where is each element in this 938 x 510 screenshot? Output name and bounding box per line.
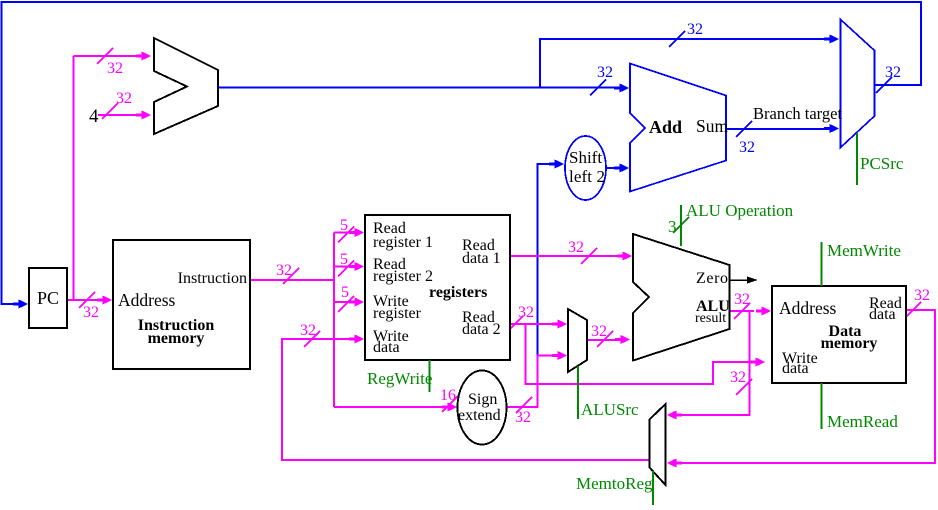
svg-text:ALU Operation: ALU Operation — [686, 201, 794, 220]
svg-text:Address: Address — [118, 290, 176, 310]
svg-text:MemtoReg: MemtoReg — [576, 474, 653, 493]
svg-text:32: 32 — [116, 90, 132, 107]
svg-text:5: 5 — [341, 284, 349, 301]
svg-text:32: 32 — [83, 304, 99, 321]
svg-text:data 2: data 2 — [462, 321, 501, 338]
svg-text:32: 32 — [107, 60, 123, 77]
svg-text:32: 32 — [568, 239, 584, 256]
svg-text:data: data — [869, 306, 896, 323]
svg-text:Address: Address — [779, 298, 837, 318]
svg-text:PCSrc: PCSrc — [860, 154, 904, 173]
svg-text:32: 32 — [914, 287, 930, 304]
svg-text:5: 5 — [340, 251, 348, 268]
svg-text:memory: memory — [821, 335, 878, 352]
svg-text:left 2: left 2 — [569, 167, 605, 186]
svg-text:Branch target: Branch target — [753, 104, 842, 123]
svg-text:32: 32 — [591, 323, 607, 340]
svg-text:5: 5 — [340, 217, 348, 234]
svg-text:data: data — [373, 339, 400, 356]
svg-text:Instruction: Instruction — [178, 270, 247, 287]
svg-text:Add: Add — [649, 117, 682, 137]
svg-text:data: data — [782, 360, 809, 377]
svg-text:memory: memory — [148, 330, 205, 347]
svg-text:MemWrite: MemWrite — [827, 241, 901, 260]
svg-text:Sign: Sign — [468, 391, 497, 408]
svg-text:result: result — [695, 311, 726, 326]
svg-text:32: 32 — [739, 139, 755, 156]
svg-text:Shift: Shift — [569, 148, 602, 167]
svg-text:32: 32 — [300, 322, 316, 339]
svg-text:Zero: Zero — [696, 270, 728, 287]
svg-text:32: 32 — [885, 64, 901, 81]
svg-text:32: 32 — [518, 304, 534, 321]
svg-text:registers: registers — [429, 284, 487, 301]
svg-text:register 2: register 2 — [373, 268, 433, 285]
svg-text:16: 16 — [440, 387, 456, 404]
svg-text:data 1: data 1 — [462, 250, 501, 267]
svg-text:register 1: register 1 — [373, 234, 433, 251]
svg-text:register: register — [373, 305, 422, 322]
svg-text:4: 4 — [89, 106, 99, 127]
svg-text:ALUSrc: ALUSrc — [581, 400, 639, 419]
svg-text:32: 32 — [276, 262, 292, 279]
svg-text:32: 32 — [687, 21, 703, 38]
svg-text:32: 32 — [597, 64, 613, 81]
svg-text:RegWrite: RegWrite — [367, 369, 432, 388]
svg-text:extend: extend — [458, 407, 501, 424]
svg-text:32: 32 — [730, 369, 746, 386]
svg-text:32: 32 — [515, 409, 531, 426]
svg-text:Sum: Sum — [696, 116, 728, 136]
svg-text:3: 3 — [668, 217, 677, 236]
svg-text:PC: PC — [37, 288, 59, 308]
svg-text:32: 32 — [734, 291, 750, 308]
svg-text:MemRead: MemRead — [827, 412, 898, 431]
